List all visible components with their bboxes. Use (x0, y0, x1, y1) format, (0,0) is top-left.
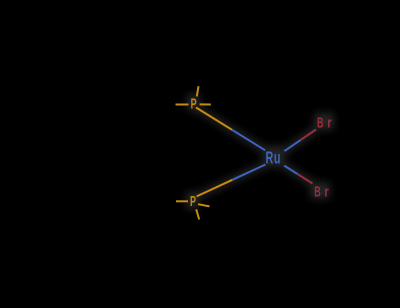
wire: bond P2-Ru orange half (197, 180, 233, 197)
wire: bond Ru-Br2 blue half (284, 166, 297, 174)
wire: bond P1-Ru orange half (196, 108, 232, 130)
svg-text:r: r (324, 183, 329, 200)
svg-text:B: B (317, 114, 324, 131)
wire: bond Ru-Br1 red half (301, 130, 317, 141)
svg-text:P: P (190, 193, 196, 210)
svg-text:B: B (314, 183, 321, 200)
wire: methyl stub right of P1 (200, 103, 211, 105)
wire: methyl stub left of P2 (176, 200, 188, 202)
wire: bond Ru-Br2 red half (298, 174, 313, 184)
wire: methyl stub down of P2 (196, 209, 199, 219)
svg-text:P: P (191, 95, 197, 112)
wire: methyl stub down-right of P2 (198, 204, 210, 206)
svg-text:r: r (327, 114, 332, 131)
wire: bond P1-Ru blue half (232, 130, 265, 151)
wire: methyl stub left of P1 (176, 104, 189, 106)
jpeg halo glow layer (186, 94, 334, 209)
wire: bond P2-Ru blue half (232, 165, 265, 180)
wire: bond Ru-Br1 blue half (284, 140, 300, 151)
wire: methyl stub up of P1 (197, 86, 199, 96)
svg-text:Ru: Ru (265, 149, 281, 168)
